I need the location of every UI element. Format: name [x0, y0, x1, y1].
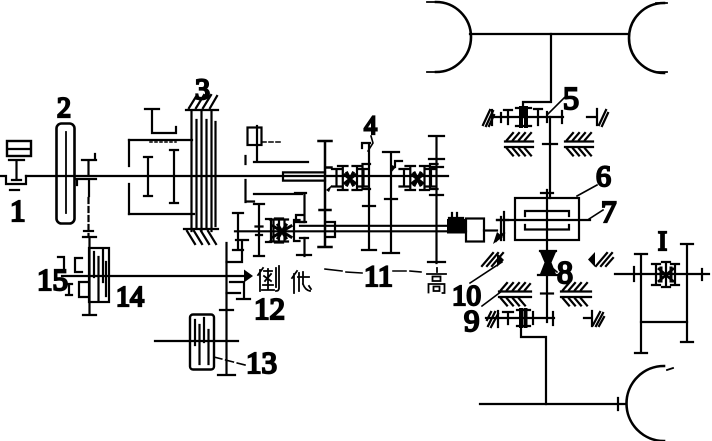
- axle bearing wedge right: [588, 252, 613, 267]
- wire vertical from axle: [523, 34, 551, 117]
- svg-text:15: 15: [37, 262, 68, 297]
- gear on lower shaft left: [233, 213, 243, 250]
- drive wheel left: [436, 2, 471, 72]
- svg-text:8: 8: [557, 254, 573, 290]
- reverse idler shaft (component 12): [218, 240, 250, 375]
- housing wall lower left: [499, 283, 531, 306]
- gear 13 shaft: [155, 340, 238, 342]
- clutch pack (component 3): [184, 95, 218, 244]
- bevel gear row (component 5): [483, 108, 563, 126]
- housing wall lower right: [561, 283, 591, 306]
- PTO clutch gear (components 14,15): [58, 237, 109, 315]
- leader for 4: [368, 136, 373, 151]
- bevel gear (component 8): [538, 251, 558, 275]
- svg-text:6: 6: [596, 160, 611, 193]
- gear on lower shaft: [254, 204, 264, 256]
- wire vertical below bevel: [546, 275, 548, 322]
- svg-text:I: I: [658, 226, 667, 256]
- bearing right of output row: [584, 311, 604, 326]
- bearing right of gear 5: [587, 109, 608, 126]
- gear cluster low/reverse on lower shaft: [266, 219, 308, 243]
- svg-text:13: 13: [246, 345, 277, 380]
- gear cluster A on input shaft: [332, 164, 370, 190]
- svg-text:10: 10: [452, 280, 481, 312]
- housing wall upper left: [505, 133, 533, 156]
- svg-text:1: 1: [10, 193, 26, 228]
- hollow shaft hub: [283, 172, 325, 180]
- wire L-step to bottom axle: [521, 322, 546, 404]
- svg-text:5: 5: [563, 80, 579, 116]
- gear cluster B on input shaft: [400, 164, 438, 190]
- gear wheel G2: [362, 143, 376, 250]
- big low gear wheel spanning shafts: [319, 141, 333, 247]
- svg-text:2: 2: [57, 93, 71, 124]
- clutch drum housing: [129, 140, 194, 214]
- PTO arrow head: [244, 270, 253, 283]
- label di (low): [292, 271, 311, 293]
- PTO shaft: [62, 275, 244, 277]
- reverse sliding sleeve bracket: [246, 156, 312, 256]
- steering wheel bottom: [627, 366, 674, 441]
- wire input shaft: [26, 175, 448, 177]
- clutch release hook upper: [82, 154, 96, 175]
- clutch release hook lower: [76, 179, 96, 196]
- sleeve bracket near big gear: [327, 222, 335, 237]
- final output gear row (component 9): [486, 310, 554, 327]
- svg-text:14: 14: [116, 282, 144, 313]
- side gear assembly I: [615, 244, 709, 353]
- gear (component 13): [190, 315, 214, 370]
- wheel axle top: [470, 33, 628, 35]
- gear wheel G3 with shift fork: [383, 152, 402, 253]
- coupling sleeve: [466, 219, 484, 242]
- wire lower output shaft: [235, 230, 466, 232]
- svg-text:11: 11: [364, 260, 393, 293]
- flywheel/clutch disc (component 2): [57, 124, 75, 224]
- drive wheel right: [629, 3, 667, 73]
- coupling gear black: [447, 213, 467, 234]
- housing wall upper right: [565, 133, 593, 156]
- wire to final drive: [484, 229, 497, 231]
- gear wheel G4 high: [428, 136, 445, 263]
- svg-text:12: 12: [254, 291, 285, 326]
- svg-text:7: 7: [601, 194, 617, 229]
- gear stub on reverse idler top: [248, 126, 282, 161]
- wire dashed link to PTO clutch: [87, 198, 89, 236]
- label gao (high): [427, 268, 446, 293]
- wire vertical shaft to differential: [549, 117, 551, 198]
- axle bearing wedge left (10): [482, 253, 504, 267]
- bottom axle: [480, 398, 626, 410]
- differential assembly (components 6,7): [496, 190, 590, 253]
- engine E (component 1): [0, 141, 31, 190]
- clutch lever: [145, 109, 176, 133]
- label dao (reverse): [258, 266, 279, 291]
- bevel pinion bracket: [493, 217, 508, 244]
